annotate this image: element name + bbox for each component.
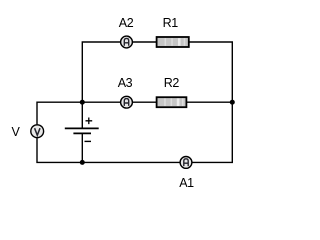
label A1 — [179, 176, 194, 190]
wire — [187, 101, 232, 103]
svg-text:A2: A2 — [119, 16, 134, 30]
wire — [193, 102, 233, 162]
svg-text:R2: R2 — [164, 76, 180, 90]
wire — [37, 138, 180, 163]
node right junction — [230, 100, 235, 105]
svg-text:R1: R1 — [163, 16, 179, 30]
wire — [133, 41, 156, 43]
wire — [37, 102, 82, 124]
wire — [82, 42, 120, 128]
ammeter A2 — [121, 36, 133, 48]
wire — [190, 42, 233, 102]
label V — [12, 125, 21, 139]
battery — [65, 118, 99, 142]
ammeter A3 — [121, 96, 133, 108]
node battery bottom junction — [80, 160, 85, 165]
voltmeter V — [31, 125, 44, 138]
node battery top junction — [80, 100, 85, 105]
svg-text:A3: A3 — [118, 76, 133, 90]
wire — [81, 133, 83, 162]
wire — [133, 101, 156, 103]
label R2 — [164, 76, 180, 90]
ammeter A1 — [180, 157, 192, 169]
svg-text:A1: A1 — [179, 176, 194, 190]
resistor R1 — [157, 37, 189, 47]
label A3 — [118, 76, 133, 90]
svg-text:V: V — [12, 125, 21, 139]
label A2 — [119, 16, 134, 30]
label R1 — [163, 16, 179, 30]
wire — [82, 101, 120, 103]
resistor R2 — [157, 97, 187, 107]
